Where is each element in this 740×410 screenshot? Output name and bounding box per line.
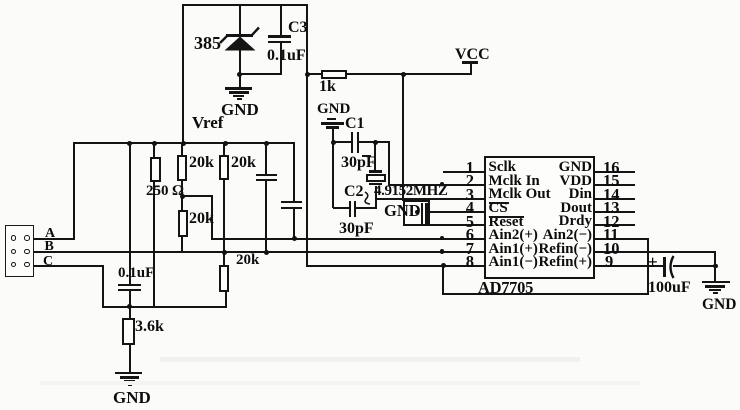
node junction cap2 on pin6 wire [292, 236, 297, 241]
wire R5 bottom lead to Ain1+ wire [181, 236, 183, 252]
capacitor C5 100uF (polarized) [663, 257, 666, 277]
wire from Vref box to 1k resistor and VCC [306, 73, 472, 75]
zener diode D1 385 (cathode bar with hooks, filled triangle) [215, 24, 265, 54]
pin number 11 [603, 227, 619, 244]
label C3 [288, 20, 308, 36]
resistor R3 20k top branch wires [181, 142, 183, 156]
wire zener top lead [239, 4, 241, 34]
label GND (bottom left) [113, 389, 151, 406]
wire pin12 stub [594, 224, 635, 226]
label AD7705 [478, 280, 533, 297]
label C [43, 255, 53, 269]
pin label CS with overline [489, 201, 508, 216]
label 20k (R3) [189, 155, 214, 171]
wire pin2 stub [388, 184, 485, 186]
pin label Refin(-) (10) [500, 242, 592, 257]
pin label Ain2(+) [489, 228, 538, 243]
pin number 4 [445, 200, 474, 217]
node junction at right riser [713, 264, 717, 268]
capacitor 0.1uF plates (bridge filter) [118, 284, 141, 287]
label Vref [192, 114, 223, 131]
label 3.6k [135, 319, 164, 335]
wire pin8 row from Vref-box edge to chip [306, 265, 486, 267]
capacitor C2 plates (vertical) [349, 201, 351, 217]
wire jog from divider to Ain2+ drop [181, 195, 213, 197]
label GND (right) [702, 297, 736, 313]
capacitor bridge cap2 plates [281, 201, 302, 203]
label 250 ohm [146, 184, 184, 199]
wire drop from C1 wire to Mclk In row [388, 142, 390, 186]
node dot on pin7 [440, 249, 444, 253]
pin number 3 [445, 187, 474, 204]
wire C1 right lead to corner [358, 141, 390, 143]
resistor R6 20k body (bottom) [219, 265, 229, 292]
wire drop of jog to pin6 row [211, 195, 213, 239]
label 1k [319, 79, 336, 95]
pin number 6 [445, 227, 474, 244]
pin number 5 [445, 214, 474, 231]
wire C3 bottom lead [280, 43, 282, 75]
node junction zener/C3 [237, 72, 242, 77]
wire cap right to riser [673, 265, 717, 267]
capacitor C3 plates [268, 35, 291, 38]
label 100uF [648, 280, 691, 296]
pin label Refin(+) (9) [500, 255, 592, 270]
pin number 15 [603, 173, 620, 190]
pin label Drdy (12) [500, 214, 592, 229]
pin label Ain1(-) [489, 255, 538, 270]
label 385 [194, 34, 221, 52]
pin number 7 [445, 241, 474, 258]
artifact bar over F [362, 155, 371, 157]
resistor R4 20k body (second top) [219, 155, 229, 180]
label VCC [455, 47, 490, 63]
label 30pF (C2) [339, 221, 374, 237]
label GND (crystal area) [317, 102, 350, 117]
pin label Mclk In [489, 174, 540, 189]
wire right riser down to GND [714, 252, 716, 281]
wire pin10 to right riser [594, 251, 716, 253]
label GND (under zener) [221, 101, 259, 118]
ground symbol right [702, 281, 730, 284]
wire joining zener anode to C3 bottom [239, 73, 282, 75]
node junction C1 left wire [331, 140, 336, 145]
GND box near pins 4/5 [403, 200, 430, 226]
connector J1 (3x2 terminal block) [5, 225, 34, 277]
label 30pF (C1) [341, 155, 376, 171]
wire pin3 stub [375, 198, 485, 200]
label C2 [344, 184, 364, 200]
wire drop to crystal top [374, 142, 376, 171]
wire pin13 stub [594, 211, 635, 213]
pin label Ain1(+) [489, 242, 538, 257]
wire right edge of Vref box down to pin8 row [306, 4, 308, 266]
resistor R1 1k (horizontal body) [321, 70, 347, 79]
node junctions on Ain1+ wire [222, 250, 227, 255]
pin number 2 [445, 173, 474, 190]
wire C drop down [102, 265, 104, 308]
wire C2 left lead [333, 207, 350, 209]
node junction crystal-top tap [373, 140, 378, 145]
node junction pin8 drop [441, 263, 446, 268]
label 4.9152MHZ [374, 184, 447, 199]
node dot on pin2 [440, 182, 444, 186]
pin number 9 [605, 254, 613, 271]
wire drop from pin8 row down [442, 265, 444, 295]
wire C from connector [34, 265, 104, 267]
pin number 8 [445, 254, 474, 271]
wire C1 left lead [333, 141, 352, 143]
wire pin16 stub [594, 171, 635, 173]
ground symbol bottom left [115, 372, 142, 375]
node junction of jog [180, 194, 185, 199]
node rail junctions [127, 141, 132, 146]
wire top edge of Vref reference box [182, 4, 308, 6]
wire C2 right lead [354, 207, 377, 209]
pin label GND (16) [500, 160, 592, 175]
wires R4 branch [223, 142, 225, 156]
label A [45, 227, 55, 241]
pin number 14 [603, 187, 620, 204]
wire bottom rail [102, 306, 227, 308]
wire left riser from wire A up to Vref rail [73, 142, 75, 238]
bars inside GND box [415, 210, 419, 214]
wire A from connector to riser [34, 238, 75, 240]
resistor R7 3.6k body [122, 318, 135, 345]
wire 0.1uF branch from rail down [129, 142, 131, 284]
wire below 0.1uF to bottom rail [129, 291, 131, 319]
artifact squiggle after C2 [362, 190, 374, 206]
node dot on pin6 [440, 236, 444, 240]
wire crystal bottom lead down [375, 186, 377, 208]
resistor R5 20k body (lower middle) [178, 210, 188, 237]
label 20k (R5) [189, 211, 214, 227]
pin label Reset with overline [489, 215, 524, 230]
wire pin5 stub [428, 224, 485, 226]
wire pin11 drop [647, 238, 649, 295]
wire C3 top lead [280, 4, 282, 35]
label GND (box) [384, 203, 421, 220]
wire R6 bottom lead to bottom rail [225, 291, 227, 307]
node junction at Vref box right edge [305, 72, 310, 77]
ground symbol small (crystal area) [327, 118, 336, 120]
pin number 16 [603, 160, 620, 177]
node junction bottom rail / 0.1uF-3.6k line [127, 304, 132, 309]
wire Vref rail (bottom of reference box) [73, 142, 295, 144]
node junction to GND-box drop [401, 72, 406, 77]
label 0.1uF (C3 value) [267, 48, 306, 64]
wire left edge of Vref reference box [182, 4, 184, 144]
artifact faint scan noise rows [160, 357, 580, 362]
wire pin1 stub [443, 171, 485, 173]
pin label Ain2(-) (11) [500, 228, 592, 243]
wire pin11 stub to corner [594, 238, 649, 240]
resistor R3 20k body [177, 155, 187, 181]
power VCC symbol [462, 61, 478, 64]
label B [45, 240, 54, 254]
wire pin15 stub [594, 184, 635, 186]
ground symbol under zener [225, 87, 252, 90]
pin number 1 [445, 160, 474, 177]
wire bottom return to pin11 [442, 293, 649, 295]
wire 3.6k bottom lead [129, 344, 131, 373]
wire pin4 stub [428, 211, 485, 213]
IC U1 AD7705 body [484, 156, 595, 279]
label + (100uF polarity) [648, 253, 658, 271]
pin label VDD (15) [500, 174, 592, 189]
wire pin9 to 100uF cap [594, 265, 664, 267]
pin label Din (14) [500, 187, 592, 202]
resistor R2 250 ohm body [150, 157, 161, 182]
label 0.1uF (bridge) [118, 266, 154, 281]
pin number 13 [603, 200, 620, 217]
label 20k (R4) [231, 155, 256, 171]
resistor R2 250 ohm branch wires [153, 142, 155, 159]
wire B / Ain1+ net to chip pin7 [34, 251, 486, 253]
label C1 [345, 116, 365, 132]
pin number 10 [603, 241, 620, 258]
crystal Y1 4.9152MHZ [369, 170, 383, 173]
pin number 12 [603, 214, 620, 231]
wires cap1 leads [265, 142, 267, 175]
capacitor C1 plates (vertical) [351, 132, 353, 153]
pin label Sclk [489, 160, 517, 175]
wire ground riser for C1/C2 [332, 127, 334, 208]
label 20k (R6) [236, 253, 259, 268]
pin label Dout (13) [500, 201, 592, 216]
wire zener bottom lead to junction and GND [239, 50, 241, 88]
pin label Mclk Out [489, 187, 551, 202]
wire pin14 stub [594, 198, 635, 200]
capacitor bridge cap1 plates [256, 174, 277, 176]
wire vertical drop from VCC rail to GND box [402, 73, 404, 201]
wire Ain2+ net to chip pin6 [211, 238, 486, 240]
wires cap2 leads (rail end corner) [293, 142, 295, 203]
